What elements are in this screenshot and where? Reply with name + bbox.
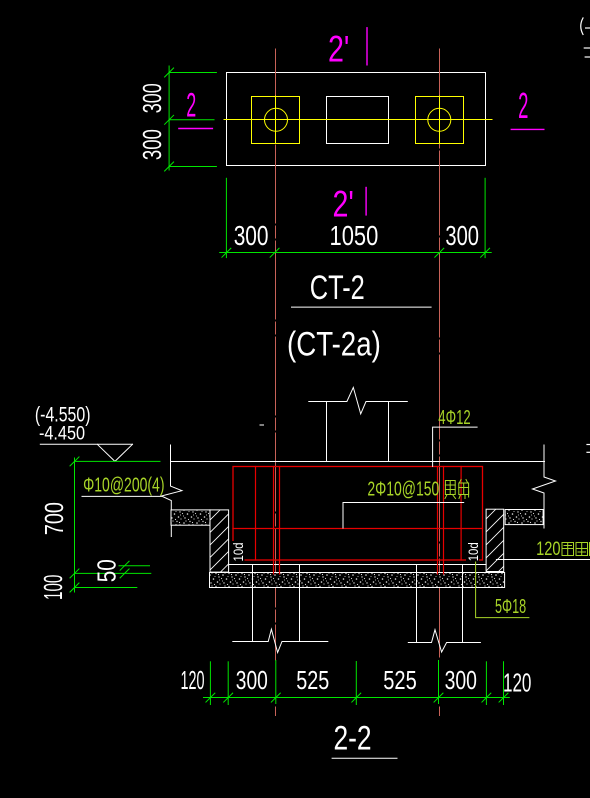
svg-text:300: 300: [445, 220, 479, 251]
rebar vertical bar at x255: [255, 467, 257, 561]
svg-text:525: 525: [383, 665, 417, 695]
footing bottom line: [229, 564, 486, 566]
svg-text:2-2: 2-2: [333, 719, 371, 757]
rebar dowel pair right: [437, 467, 439, 575]
section sub-dim extension at footing bottom: [119, 565, 150, 567]
plan left dim tick top: [165, 68, 174, 77]
section marker 2 left tick line: [179, 128, 213, 130]
left pedestal square: [252, 97, 300, 144]
svg-text:2: 2: [518, 85, 528, 126]
column top break line with zigzag: [309, 387, 408, 414]
left pedestal break line with zigzag: [233, 629, 328, 652]
rebar cage outline (red box): [233, 467, 483, 561]
column above footing: left edge: [326, 402, 328, 462]
bottom dim ticks: [206, 693, 215, 702]
section marker 2 right tick line: [511, 128, 544, 130]
clipped text fragment top-right: parenthesis: [581, 18, 583, 35]
annotation waist-bar characters (drawn strokes): [445, 480, 469, 499]
plan left dim extension line middle: [169, 119, 214, 121]
svg-text:10d: 10d: [465, 542, 481, 561]
svg-text:100: 100: [38, 575, 68, 600]
left excavation wall edge with break jag: [161, 445, 182, 537]
section marker 2' top tick line: [366, 28, 368, 65]
clipped text fragment top-right: dash 2: [585, 56, 590, 58]
right pedestal break line with zigzag: [408, 630, 480, 652]
plan left dim tick middle: [165, 115, 174, 124]
right pedestal circle: [428, 108, 451, 131]
stray white dash left of column: [260, 424, 264, 426]
title underline: [292, 306, 432, 308]
annotation phi10@200(4) leader underline: [82, 495, 161, 497]
svg-text:2: 2: [186, 86, 196, 124]
svg-text:2Φ10@150: 2Φ10@150: [367, 479, 439, 501]
column above footing: right edge: [388, 402, 390, 462]
svg-text:300: 300: [236, 665, 268, 695]
section marker 2' bottom tick line: [365, 188, 367, 215]
svg-text:10d: 10d: [230, 543, 246, 562]
clipped text fragment top-right: minus: [586, 27, 590, 29]
right concrete strip (speckled): [505, 510, 543, 525]
svg-text:2': 2': [328, 29, 349, 70]
svg-text:120: 120: [503, 668, 532, 698]
plan bottom dim tick 4: [481, 248, 490, 257]
section left dim extension top (footing top level): [75, 460, 161, 462]
right brick-form wall outer edge with break jag: [533, 445, 556, 528]
svg-text:700: 700: [39, 502, 69, 535]
svg-text:525: 525: [296, 665, 329, 695]
svg-text:300: 300: [445, 665, 477, 695]
svg-text:300: 300: [137, 129, 167, 160]
pedestal below footing: right edges: [416, 565, 418, 643]
clipped text fragment top-right: dash 1: [584, 47, 590, 49]
section left vertical dimension line: [74, 458, 76, 592]
middle column rectangle: [327, 97, 389, 144]
left concrete strip (speckled): [171, 510, 210, 525]
svg-text:2': 2': [333, 184, 354, 225]
svg-text:300: 300: [234, 220, 269, 251]
clipped fragment right edge: dash 1: [587, 444, 590, 446]
footing top surface line: [171, 461, 545, 463]
elevation datum line: [40, 443, 132, 445]
yellow vertical axis in left square: [275, 96, 277, 144]
plan bottom dim extension right: [484, 178, 486, 257]
footing outline rectangle: [227, 73, 486, 166]
svg-text:120: 120: [181, 665, 205, 695]
pedestal below footing: left edges: [252, 565, 254, 642]
yellow horizontal axis line: [224, 119, 492, 121]
svg-text:1050: 1050: [330, 220, 379, 251]
bottom dim extension lines: [209, 662, 211, 705]
svg-text:50: 50: [92, 559, 122, 582]
svg-text:-4.450: -4.450: [39, 424, 85, 445]
left column centerline (axis 1): [275, 49, 277, 660]
plan bottom dim tick 3: [435, 248, 444, 257]
plan bottom dim tick 2: [270, 248, 279, 257]
black backing for 10d left: [232, 541, 245, 562]
brick form characters (drawn strokes): [562, 543, 590, 556]
left hatched wall strip: [210, 510, 229, 572]
rebar vertical bar at x461: [460, 467, 462, 561]
section left dim extension at bedding bottom: [75, 587, 137, 589]
left hatch diagonals: [202, 494, 236, 603]
annotation 120 brick form leader: [496, 559, 590, 561]
rebar dowel pair left: [273, 467, 275, 575]
section sub-dim ticks at x124.6: [120, 561, 129, 570]
bedding layer (speckled): [210, 573, 505, 588]
annotation 2phi10@150 leader: [343, 503, 464, 529]
right centerline stub below bottom dimension: [439, 707, 441, 716]
plan left dim extension line top: [169, 72, 216, 74]
left centerline stub below bottom dimension: [275, 707, 277, 716]
right hatch diagonals: [478, 493, 512, 592]
yellow vertical axis in right square: [439, 96, 441, 144]
plan bottom dimension line: [220, 252, 492, 254]
svg-text:CT-2: CT-2: [310, 269, 365, 307]
svg-text:(CT-2a): (CT-2a): [287, 326, 381, 364]
svg-text:120: 120: [536, 539, 560, 560]
section left dim ticks: [70, 457, 79, 466]
plan left vertical dimension line: [168, 66, 170, 170]
plan bottom dim tick 1: [222, 248, 231, 257]
annotation 5phi18 leader: [476, 562, 529, 618]
clipped fragment right edge: dash 2: [587, 451, 590, 453]
right hatched wall strip: [486, 509, 504, 571]
section bottom dimension line: [204, 697, 510, 699]
svg-text:Φ10@200(4): Φ10@200(4): [83, 475, 164, 497]
svg-text:300: 300: [137, 83, 167, 113]
plan bottom dim extension left: [225, 178, 227, 257]
black backing for 10d right: [466, 541, 479, 561]
plan left dim extension line bottom: [169, 166, 216, 168]
section left dim extension at bedding top: [75, 572, 151, 574]
left pedestal circle: [265, 108, 288, 131]
plan left dim tick bottom: [165, 162, 174, 171]
svg-text:5Φ18: 5Φ18: [495, 596, 526, 618]
svg-text:4Φ12: 4Φ12: [438, 407, 470, 429]
annotation 4phi12 leader: [433, 427, 478, 466]
rebar middle horizontal bar: [233, 528, 483, 530]
right pedestal square: [416, 97, 464, 144]
section title underline: [332, 757, 397, 759]
right column centerline (axis 2): [439, 49, 441, 657]
elevation triangle symbol: [97, 444, 132, 461]
